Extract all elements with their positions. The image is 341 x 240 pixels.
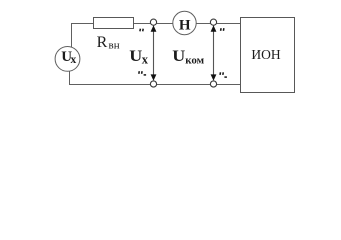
terminal minus-kom (bottom right) (210, 81, 216, 87)
terminal plus-x (top left) (150, 19, 156, 25)
svg-text:вн: вн (109, 40, 120, 52)
wire: source top stub to resistor (72, 24, 94, 48)
arrowhead up at plus-kom (211, 25, 217, 32)
arrowhead up at plus-x (151, 25, 157, 32)
svg-text:ИОН: ИОН (251, 47, 280, 62)
svg-text:R: R (97, 34, 108, 51)
svg-text:Н: Н (179, 18, 191, 34)
wire: source bottom stub along bottom to terminal minus-x (70, 71, 151, 85)
arrowhead down at minus-x (151, 74, 157, 80)
polarity mark minus at minus-x terminal (139, 71, 146, 75)
terminal minus-x (bottom left) (150, 81, 156, 87)
arrow Ux vertical measure line (153, 31, 155, 77)
svg-text:ком: ком (185, 54, 204, 66)
wire: bottom terminal to ION box (217, 84, 241, 86)
polarity mark minus at minus-kom terminal (220, 72, 227, 77)
resistor Rvn (94, 18, 134, 29)
wire: bottom between terminals (157, 84, 211, 86)
polarity tick mark at plus-kom terminal (221, 28, 224, 31)
wire: null indicator to terminal plus-kom (196, 23, 210, 25)
svg-text:x: x (71, 54, 77, 66)
arrowhead down at minus-kom (211, 74, 217, 80)
arrow Ukom vertical measure line (213, 31, 215, 77)
voltage source Ux (55, 47, 80, 72)
polarity tick mark at plus-x terminal (140, 29, 143, 32)
wire: terminal to ION box top (217, 23, 241, 25)
svg-text:U: U (129, 48, 142, 65)
null indicator H (173, 11, 196, 34)
svg-text:U: U (172, 48, 185, 65)
svg-text:x: x (142, 53, 149, 67)
wire: resistor to terminal plus-x (134, 23, 151, 25)
wire: terminal to null indicator (157, 23, 173, 25)
terminal plus-kom (top right) (210, 19, 216, 25)
ION box (241, 18, 295, 93)
